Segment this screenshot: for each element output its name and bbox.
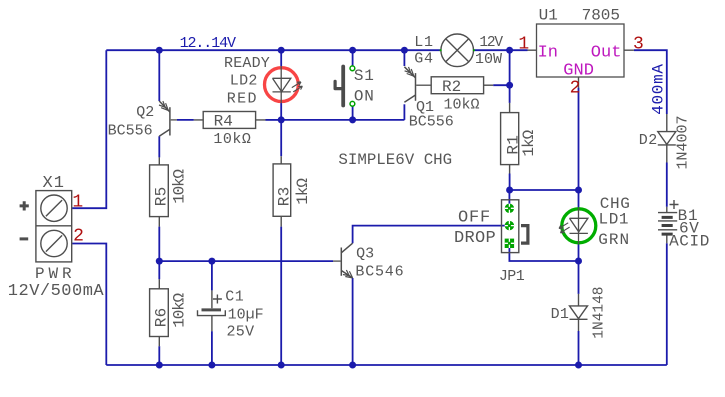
svg-text:12V/500mA: 12V/500mA [8,282,105,301]
junction C1 bottom / bottom rail [208,362,215,369]
svg-text:C1: C1 [225,289,244,306]
wire Q2 emitter drop [158,50,160,101]
svg-text:L1: L1 [414,34,434,51]
svg-text:Q2: Q2 [136,104,154,121]
junction LD2 anode / top rail [278,47,285,54]
svg-text:10kΩ: 10kΩ [444,97,480,114]
transistor Q3 [333,243,353,278]
wire S1 bottom [352,106,354,120]
battery B1 [658,200,679,243]
svg-text:In: In [538,43,558,62]
wire R4 right to junction [266,119,282,121]
wire Q3 emitter to rail [352,278,354,365]
wire D1 top [578,261,580,294]
wire mid row to Q3 base [159,260,333,262]
wire B1 bottom to rail [666,243,668,365]
resistor R2 [431,77,493,94]
jumper JP1 [502,200,528,253]
diode D2 [658,114,676,163]
svg-text:R3: R3 [275,186,293,206]
svg-text:1kΩ: 1kΩ [294,178,312,205]
wire R4 left [177,119,194,121]
svg-text:1N4007: 1N4007 [674,115,691,169]
wire R2 right to junction [493,84,509,86]
wire Q1 collector drop [403,104,405,120]
svg-text:R4: R4 [214,113,233,131]
junction C1 top / mid row [208,258,215,265]
svg-text:PWR: PWR [35,265,76,283]
resistor R1 [501,103,519,174]
junction R3 bottom / bottom rail [278,362,285,369]
wire LD1 bottom [578,244,580,261]
wire R1 row to GND column [510,189,579,191]
svg-text:10kΩ: 10kΩ [213,131,251,148]
junction D1 cathode / bottom rail [575,362,582,369]
svg-text:R2: R2 [442,78,461,96]
junction R5 bottom / R6 top / Q3 base row [156,258,163,265]
junction S1 bottom / Q1 collector row [349,116,356,123]
wire JP1 pin1 [508,190,510,208]
wire R1 bottom [509,174,511,191]
wire D2 to B1 [666,163,668,207]
wire R3 top [280,120,282,156]
svg-text:Q3: Q3 [356,245,374,262]
svg-text:G4: G4 [414,51,434,68]
svg-text:10kΩ: 10kΩ [171,292,189,327]
svg-text:READY: READY [224,55,270,72]
svg-text:10kΩ: 10kΩ [171,169,189,204]
svg-text:BC556: BC556 [409,113,454,130]
svg-text:D1: D1 [551,306,570,323]
wire D1 bottom to rail [578,331,580,365]
svg-text:12V: 12V [479,35,503,51]
svg-text:1: 1 [72,193,83,213]
junction S1 / top rail [349,47,356,54]
wire JP1 pin3 to LD1 bottom junction [509,243,578,261]
svg-text:ON: ON [354,87,375,105]
svg-text:LD2: LD2 [230,72,258,89]
wire X1 pin2 to left column down [72,244,106,366]
svg-text:R6: R6 [152,307,170,327]
resistor R5 [150,157,169,226]
lamp pin dots [440,49,442,51]
wire Q1 emitter [403,50,405,66]
wire LD2 top [280,50,282,66]
lamp L1 [441,34,474,67]
LED LD2 symbol [273,66,303,103]
svg-text:3: 3 [633,34,644,54]
junction R6 bottom / bottom rail [156,362,163,369]
resistor R6 [150,279,169,346]
svg-text:Out: Out [591,43,622,62]
junction U1 GND / LD1 anode [575,187,582,194]
svg-text:GRN: GRN [598,231,630,249]
svg-text:OFF: OFF [458,208,491,227]
wire C1 top [211,261,213,290]
svg-text:12..14V: 12..14V [180,35,236,52]
junction LD1 cathode / JP1 pin3 / D1 anode [575,258,582,265]
svg-text:1N4148: 1N4148 [591,286,607,338]
junction Q1 emitter / lamp / top rail [401,47,408,54]
junction Q2 emitter / top rail [156,47,163,54]
wire R2 junction up to rail and down to R1 [509,50,511,103]
svg-text:SIMPLE6V CHG: SIMPLE6V CHG [338,151,452,169]
wire R4 row junction to Q1 collector column [281,119,404,121]
junction R2 right / R1 top [506,82,513,89]
svg-text:X1: X1 [43,174,65,193]
svg-text:10W: 10W [475,51,502,68]
LED LD1 symbol [559,208,588,244]
svg-text:7805: 7805 [582,6,620,24]
svg-text:400mA: 400mA [649,63,667,115]
svg-text:2: 2 [73,227,84,247]
svg-text:1: 1 [518,34,529,54]
wire LD2 bottom to R4 row [280,103,282,120]
wire U1 GND down [578,88,580,190]
svg-text:D2: D2 [639,132,658,149]
transistor Q1 [404,67,431,102]
junction R1-R2 column / top rail [506,47,513,54]
capacitor C1 [198,290,226,331]
IC U1 7805 [528,24,634,88]
svg-text:JP1: JP1 [499,268,525,285]
svg-text:U1: U1 [539,6,558,24]
wire U1 Out to D2 [634,50,667,114]
svg-text:2: 2 [570,79,581,99]
wire Q2 collector to R5 [158,136,160,157]
svg-text:BC556: BC556 [108,122,153,139]
wire Q3 collector to JP1 pin2 [353,226,510,244]
svg-text:S1: S1 [354,67,375,85]
svg-text:1kΩ: 1kΩ [520,129,538,156]
wire top rail left of lamp [106,49,441,51]
svg-text:DROP: DROP [454,229,496,248]
svg-text:BC546: BC546 [355,264,404,281]
svg-text:10µF: 10µF [228,307,264,324]
svg-text:ACID: ACID [669,233,710,251]
LED LD1 green circle [562,209,596,243]
switch S1 [335,66,355,106]
wire S1 top [352,50,354,66]
connector X1 [20,191,72,262]
junction R4 right / LD2 cathode / R3 top [278,116,285,123]
LED LD2 red circle [265,68,299,102]
svg-text:RED: RED [227,90,258,107]
svg-text:25V: 25V [227,324,255,341]
svg-text:LD1: LD1 [599,211,630,229]
resistor R4 [194,112,266,129]
wire top rail right of lamp [474,49,528,51]
wire bottom rail [106,364,667,366]
wire R5 bottom to mid junction [158,227,160,262]
wire X1 pin1 to left column up [72,50,106,208]
junction Q3 emitter / bottom rail [349,362,356,369]
wire R3 bottom to rail [280,227,282,365]
wire LD1 top [578,190,580,208]
resistor R3 [273,156,291,226]
transistor Q2 [159,101,177,136]
svg-text:R5: R5 [152,186,170,206]
wire C1 bottom [211,331,213,365]
wire R6 bottom to rail [158,346,160,365]
wire R6 top lead [158,261,160,279]
junction R1 bottom / JP1 pin1 [506,187,513,194]
diode D1 [570,294,588,331]
